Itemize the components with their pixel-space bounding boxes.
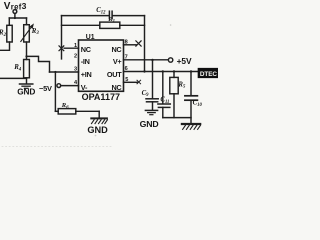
node Vref3 junction (14, 17, 16, 19)
op-amp U1 box (79, 40, 124, 91)
svg-text:+5V: +5V (177, 56, 192, 66)
svg-text:-IN: -IN (81, 57, 90, 66)
svg-text:NC: NC (81, 45, 92, 54)
wire down to R6 (54, 72, 56, 111)
node +5V / C9 (151, 59, 153, 61)
wire feedback right vertical (144, 16, 146, 72)
wire (26, 78, 28, 84)
wire pin4 (61, 85, 79, 87)
wire (26, 18, 28, 25)
capacitor C11 (158, 103, 170, 105)
resistor R6 (58, 109, 76, 114)
svg-text:GND: GND (140, 119, 159, 129)
wire (190, 101, 192, 123)
node +IN / R6 (54, 71, 56, 73)
wire (0, 77, 27, 79)
node OUT / R5 (173, 70, 175, 72)
wire R1 branch (62, 24, 100, 26)
svg-text:5: 5 (125, 77, 128, 83)
svg-text:2: 2 (74, 54, 77, 60)
svg-text:GND: GND (17, 86, 35, 96)
svg-text:OUT: OUT (107, 70, 122, 79)
ground GND under R4 (20, 83, 33, 85)
svg-text:1: 1 (74, 43, 77, 49)
resistor R4 (24, 60, 30, 78)
wire feedback left vertical (61, 16, 63, 59)
svg-text:+IN: +IN (81, 70, 92, 79)
wire C9 drop (152, 60, 154, 99)
svg-text:8: 8 (125, 39, 128, 45)
terminal Vref3 (13, 10, 17, 14)
svg-text:GND: GND (87, 125, 108, 135)
resistor R2 (7, 25, 12, 42)
pin 1 stub with X (NC) (64, 47, 78, 49)
pin 5 stub (NC) (124, 81, 138, 83)
wire C11 drop (162, 72, 164, 104)
svg-text:NC: NC (111, 45, 122, 54)
scan artifact speck (95, 135, 97, 137)
node R3/R4 tap (25, 55, 27, 57)
resistor R3 potentiometer (24, 25, 30, 42)
svg-text:V+: V+ (113, 57, 122, 66)
svg-text:OPA1177: OPA1177 (82, 92, 120, 102)
wire (14, 13, 16, 18)
svg-text:6: 6 (125, 66, 128, 72)
wire (55, 110, 58, 112)
wire ground rail (163, 117, 191, 119)
wire (26, 42, 28, 60)
pin 7 wire to +5V (124, 59, 169, 61)
capacitor C12 (108, 11, 110, 19)
earth ground under C10 (182, 123, 200, 125)
wire (120, 24, 145, 26)
node OUT / C10 (190, 70, 192, 72)
svg-text:7: 7 (125, 54, 128, 60)
ground GND under C9 (145, 109, 157, 111)
resistor R1 (100, 22, 120, 28)
capacitor C10 (185, 95, 198, 97)
resistor R5 (170, 77, 178, 93)
connector DTEC (198, 69, 218, 78)
earth ground under R6 (98, 111, 100, 118)
terminal +5V (168, 58, 172, 62)
wire tap to +IN (27, 56, 50, 72)
wire (152, 102, 154, 110)
scan artifact dotted line (2, 146, 112, 148)
pin 8 stub with X (NC) (124, 44, 137, 46)
capacitor C9 (146, 98, 158, 100)
svg-text:V-: V- (81, 83, 88, 92)
wire (9, 17, 26, 19)
node feedback/out (143, 70, 145, 72)
wire top feedback (62, 15, 109, 17)
svg-text:DTEC: DTEC (200, 71, 217, 78)
pin 6 wire OUT (124, 71, 199, 73)
svg-text:NC: NC (111, 83, 122, 92)
wire pin3 (50, 71, 79, 73)
wire (162, 107, 164, 117)
scan artifact speck (170, 24, 172, 26)
svg-text:−5V: −5V (39, 84, 52, 93)
wire (76, 110, 99, 112)
svg-text:U1: U1 (86, 34, 95, 41)
wire R5 drop (173, 72, 175, 78)
wire (0, 42, 10, 50)
svg-text:3: 3 (74, 67, 77, 73)
wire C10 drop (190, 72, 192, 96)
wire (113, 15, 145, 17)
node OUT / C11 (162, 70, 164, 72)
wire (173, 94, 175, 118)
wire (8, 18, 10, 25)
